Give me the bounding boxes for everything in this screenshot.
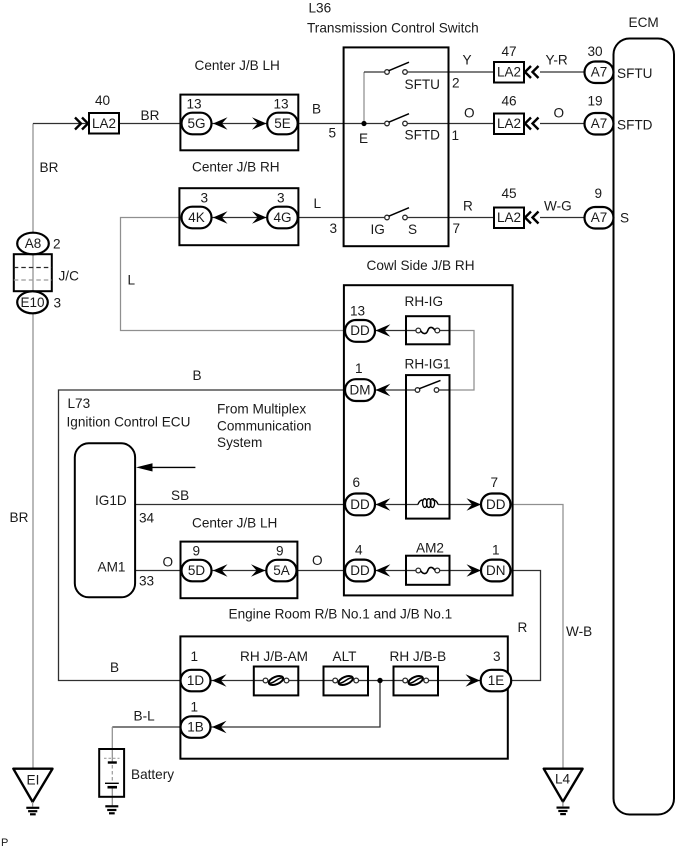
wire BR horizontal into connector LA2 (40) [33,123,89,125]
arrow into 4G [252,211,267,223]
battery long thin plate [105,782,119,784]
svg-text:7: 7 [491,475,499,490]
arrow into 1D [212,674,227,686]
wire R from DN right then down then left into 1E pin 3 [508,571,541,681]
battery positive short bar [108,761,117,763]
svg-text:13: 13 [274,97,289,112]
svg-text:SFTD: SFTD [405,128,441,143]
ECM box [614,39,675,815]
fuse RH-IG box [406,316,450,344]
pin 1D oval [181,670,211,692]
wire from fuse RH-IG right side up-over to relay RH-IG1 [450,331,475,391]
svg-text:System: System [217,435,262,450]
svg-text:SFTU: SFTU [405,77,441,92]
svg-text:1: 1 [191,649,199,664]
svg-text:1: 1 [191,700,199,715]
connector LA2 (46) box [494,114,524,135]
svg-text:A7: A7 [591,116,608,131]
L4 stub to ground [562,802,564,807]
svg-text:DD: DD [350,563,370,578]
switch SFTU contacts [385,70,390,75]
pin 4G oval [267,207,298,229]
pin DD 6 oval [345,494,375,516]
wire node E vertical to SFTU contact [363,72,365,124]
arrow into 5G [213,117,228,129]
wire stubs inside fuse RH-IG [406,330,416,332]
connector LA2 (40) box [89,113,119,134]
svg-text:B-L: B-L [134,709,156,724]
svg-text:ECM: ECM [629,15,659,30]
svg-text:L: L [128,273,136,288]
svg-text:DD: DD [350,497,370,512]
svg-text:5D: 5D [188,563,206,578]
arrow into DD13 [376,324,391,337]
wire fuse AM2 to DN pin 1 [450,570,484,572]
wire B from DM left then down then right to 1D [59,390,347,681]
Center J/B LH box (5D/5A) [181,542,298,599]
wire stubs inside ALT [324,680,334,682]
wire between 5D and 5A [211,570,267,572]
svg-text:ALT: ALT [333,649,357,664]
arrow into 5A [251,564,266,576]
svg-text:O: O [163,555,174,570]
svg-text:EI: EI [27,773,40,788]
pin 5A oval [266,560,296,582]
arrow from multiplex into ECU [147,466,195,468]
junction connector J/C box [14,254,52,291]
Engine Room R/B No.1 and J/B No.1 box [180,636,507,758]
wire SFTD contact to pin 1 [407,123,449,125]
fusible link RH J/B-AM symbol [263,678,268,683]
svg-text:45: 45 [502,186,517,201]
connector E10 oval [17,291,48,313]
svg-text:B: B [193,368,202,383]
fuse RH-IG symbol [416,328,421,333]
ECM pin A7 (9) oval [585,207,614,229]
wire stub inside relay RH-IG1 to right edge [439,389,450,391]
pin DD 4 oval [345,560,375,582]
wire battery internal to ground [111,787,113,806]
chevrons into LA2 45 [525,212,539,224]
svg-text:S: S [408,222,417,237]
wire BR vertical from LA2 corner down through A8/J-C/E10 to EI ground [32,124,34,769]
ECM pin A7 (19) oval [585,113,614,135]
wire IG row inside switch [344,217,385,219]
svg-text:40: 40 [95,93,111,108]
svg-text:W-B: W-B [566,624,592,639]
svg-text:47: 47 [502,44,517,59]
svg-text:3: 3 [277,191,285,206]
switch SFTD contacts [385,121,390,126]
svg-text:LA2: LA2 [497,116,521,131]
wire coil to DD7 [438,504,483,506]
wire SB from IG1D to DD pin 6 [135,504,346,506]
arrow into DD4 [376,564,391,577]
wire between 5G and 5E inside Center J/B LH [211,123,268,125]
wire pin 1 to connector LA2 (46) [449,123,495,125]
ground triangle EI [13,769,52,802]
wire between 4K and 4G [211,217,268,219]
battery top dashed line [104,757,120,759]
arrow into 5D [213,564,228,576]
J/C dashed line 1 [14,267,52,269]
wire LA2 (46) to ECM A7 pin 19 [540,123,585,125]
svg-text:AM2: AM2 [416,541,444,556]
svg-text:Communication: Communication [217,419,311,434]
svg-text:P: P [1,837,8,849]
wire stubs inside fuse AM2 [406,570,416,572]
svg-text:7: 7 [453,221,461,236]
wire SFTD row inside switch to contact [344,123,385,125]
svg-text:9: 9 [193,544,201,559]
wire BR from LA2 to Center J/B LH pin 5G [119,123,182,125]
svg-text:3: 3 [493,649,501,664]
svg-text:AM1: AM1 [98,559,126,574]
svg-text:2: 2 [452,76,460,91]
pin DD 13 oval [345,320,375,342]
chevrons into LA2 40 [75,118,88,130]
svg-text:1: 1 [452,128,460,143]
svg-text:R: R [463,199,473,214]
ground triangle L4 [544,769,583,802]
pin 5G oval [182,113,212,135]
relay RH-IG1 switch contacts [415,388,420,393]
svg-text:4K: 4K [188,210,205,225]
wire junction down to 1B row [210,681,380,728]
arrow into 1E [466,674,481,686]
svg-text:L: L [314,196,322,211]
battery short thick plate [108,786,118,789]
relay RH-IG1 box [406,375,450,518]
ECM pin A7 (30) oval [585,62,614,84]
node E junction dot [361,121,366,126]
wire ALT to RH J/B-B through junction [368,680,394,682]
pin DD 7 oval [481,494,511,516]
wire B-L from battery to 1B [112,726,182,728]
svg-text:IG1D: IG1D [95,493,127,508]
svg-text:46: 46 [502,94,517,109]
ground symbol under EI [26,807,39,809]
svg-text:2: 2 [53,237,61,252]
wire pin 2 to connector LA2 (47) [449,71,495,73]
pin DM 1 oval [345,379,375,401]
pin DN 1 oval [481,560,511,582]
arrow into DM [376,384,391,397]
wire stubs inside RH J/B-AM [254,680,263,682]
connector A8 oval [17,233,49,255]
fusible link RH J/B-B symbol [403,678,408,683]
svg-text:LA2: LA2 [497,210,521,225]
svg-text:E: E [359,131,368,146]
ground symbol under battery [105,805,118,807]
svg-text:Y-R: Y-R [546,53,568,68]
wire O from AM1 pin 33 to 5D [135,570,183,572]
svg-text:5A: 5A [273,563,290,578]
arrow into 4K [213,211,228,223]
svg-text:3: 3 [201,191,209,206]
wire B from 5E to Transmission Control Switch pin 5 [297,123,344,125]
svg-text:A8: A8 [25,236,42,251]
svg-text:W-G: W-G [544,199,572,214]
svg-text:B: B [110,660,119,675]
svg-text:Battery: Battery [131,767,174,782]
ignition control ECU IG1D/AM1 rounded box [75,443,135,597]
pin 5D oval [182,560,212,582]
pin 1E oval [481,670,512,692]
svg-text:3: 3 [330,221,338,236]
svg-text:19: 19 [588,94,603,109]
svg-text:Ignition Control ECU: Ignition Control ECU [67,415,191,430]
svg-text:B: B [312,102,321,117]
svg-text:L73: L73 [68,396,91,411]
wire LA2 (45) to ECM A7 pin 9 [540,217,585,219]
transmission control switch box L36 [344,47,449,246]
svg-text:LA2: LA2 [497,65,521,80]
wire through relay coil row to DD pin 7 [375,504,418,506]
svg-text:1D: 1D [187,673,205,688]
svg-text:1B: 1B [187,720,204,735]
svg-text:1: 1 [492,543,500,558]
wire L from 4K left then down then to Cowl Side DD pin 13 [121,218,347,331]
fuse AM2 box [406,556,450,585]
wire stubs inside RH J/B-B [394,680,404,682]
svg-text:L4: L4 [555,772,571,787]
svg-text:J/C: J/C [59,269,80,284]
svg-text:BR: BR [141,108,160,123]
fuse AM2 symbol [416,568,421,573]
svg-text:Transmission Control Switch: Transmission Control Switch [307,21,479,36]
svg-text:13: 13 [350,304,365,319]
J/C dashed line 2 [14,279,52,281]
wire DD13 to fuse RH-IG [375,330,406,332]
svg-text:From Multiplex: From Multiplex [217,402,306,417]
svg-text:IG: IG [371,222,385,237]
svg-text:R: R [518,620,528,635]
wire W-B from DD7 right then down to ground L4 [509,505,563,769]
svg-text:Center J/B LH: Center J/B LH [195,58,280,73]
svg-text:13: 13 [187,97,202,112]
wire pin 7 to connector LA2 (45) [449,217,495,219]
pin 4K oval [182,207,212,229]
pin 1B oval [181,716,211,738]
svg-text:O: O [312,553,323,568]
fusible link ALT symbol [333,678,338,683]
junction node dot between ALT and RH J/B-B [377,678,382,683]
svg-text:Cowl Side J/B RH: Cowl Side J/B RH [367,258,475,273]
svg-text:O: O [554,106,565,121]
svg-text:5G: 5G [187,116,205,131]
relay RH-IG1 coil [418,500,438,504]
fusible link RH J/B-AM box [254,667,298,696]
arrow into DD6 [376,498,391,511]
switch IG-S contacts [385,215,390,220]
svg-text:5: 5 [329,126,337,141]
svg-text:DM: DM [350,382,371,397]
wire battery drop vertical [111,727,113,762]
Center J/B LH box (5G/5E) [180,95,298,151]
battery box [99,749,124,797]
fusible link ALT box [324,667,369,696]
svg-text:Center J/B RH: Center J/B RH [192,160,280,175]
battery dashed center line [111,765,113,781]
EI stub to ground [32,802,34,807]
svg-text:Center J/B LH: Center J/B LH [192,516,277,531]
connector LA2 (45) box [494,208,524,229]
svg-text:SFTD: SFTD [617,118,653,133]
ground symbol under L4 [557,806,570,808]
svg-text:RH-IG: RH-IG [405,294,444,309]
wire LA2 (47) to ECM A7 pin 30 [540,71,585,73]
connector LA2 (47) box [494,62,524,83]
svg-text:30: 30 [588,44,604,59]
wire O from 5A to DD pin 4 [296,570,346,572]
svg-text:O: O [464,106,475,121]
svg-text:RH J/B-B: RH J/B-B [390,649,447,664]
svg-text:LA2: LA2 [92,116,116,131]
arrow into 5E [252,117,267,129]
svg-text:Y: Y [463,53,472,68]
svg-text:BR: BR [40,160,59,175]
svg-text:RH J/B-AM: RH J/B-AM [240,649,308,664]
svg-text:A7: A7 [591,210,608,225]
Center J/B RH box (4K/4G) [179,188,298,245]
chevrons into LA2 47 [525,66,539,78]
svg-text:9: 9 [276,544,284,559]
svg-text:3: 3 [54,296,62,311]
svg-text:Engine Room R/B No.1 and J/B N: Engine Room R/B No.1 and J/B No.1 [229,607,453,622]
svg-text:33: 33 [139,574,154,589]
svg-text:DD: DD [486,497,506,512]
Cowl Side J/B RH box [344,285,513,595]
wire DD4 to fuse AM2 [375,570,406,572]
svg-text:S: S [620,211,629,226]
svg-text:DN: DN [486,563,506,578]
pin 5E oval [267,113,298,135]
svg-text:RH-IG1: RH-IG1 [405,357,451,372]
svg-text:1E: 1E [488,673,505,688]
svg-text:BR: BR [10,510,29,525]
wire E to SFTU movable contact [364,71,385,73]
svg-text:9: 9 [595,186,603,201]
arrow into DN [467,564,482,576]
wire RH J/B-AM to ALT [298,680,324,682]
svg-text:6: 6 [353,475,361,490]
svg-text:DD: DD [350,323,370,338]
svg-text:5E: 5E [274,116,291,131]
svg-text:E10: E10 [20,295,44,310]
wire L from Center J/B RH 4G to switch pin 3 [297,217,344,219]
arrow into 1B [212,721,227,733]
svg-text:SB: SB [171,488,189,503]
chevrons into LA2 46 [525,118,539,130]
svg-text:SFTU: SFTU [617,66,653,81]
wire DM to relay RH-IG1 switch [375,389,417,391]
wire S contact to pin 7 [407,217,449,219]
svg-text:A7: A7 [591,65,608,80]
svg-text:4: 4 [355,543,363,558]
wire RH J/B-B to 1E [438,680,483,682]
svg-text:1: 1 [355,361,363,376]
svg-text:L36: L36 [309,1,332,16]
svg-text:34: 34 [139,511,155,526]
fusible link RH J/B-B box [394,667,439,696]
svg-text:4G: 4G [273,210,291,225]
wire 1D to fusible link RH J/B-AM [210,680,254,682]
arrow into DD7 [467,498,482,510]
wire SFTU contact to pin 2 [407,71,449,73]
